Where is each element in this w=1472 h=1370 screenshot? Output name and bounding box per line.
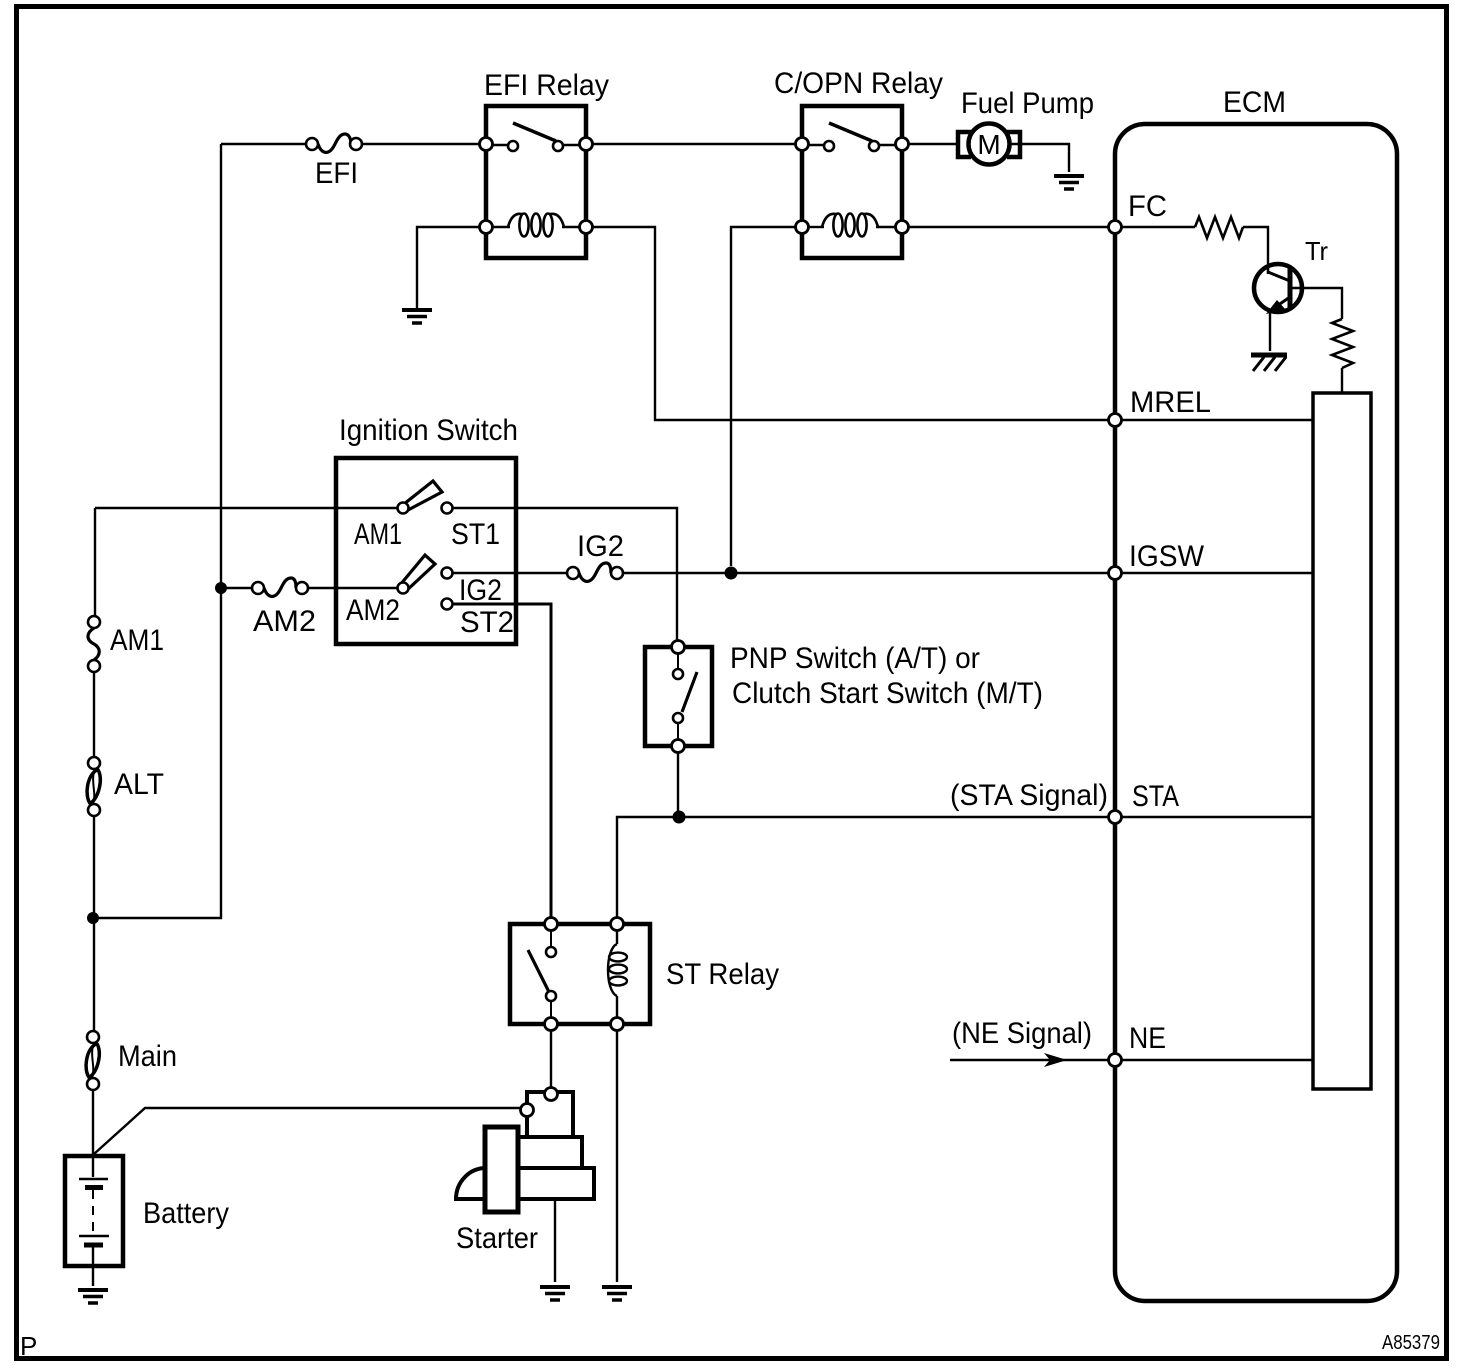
wire STA pin to internal block [1122, 816, 1313, 818]
svg-text:Tr: Tr [1305, 236, 1328, 266]
pin NE [1109, 1054, 1122, 1067]
ignition switch contact ST2 [442, 599, 453, 610]
wire transistor emitter to ground [1269, 312, 1271, 351]
wire battery to ground [92, 1266, 94, 1286]
wire C/OPN coil-left pin to IGSW riser [731, 227, 796, 566]
fuse IG2 [567, 563, 623, 581]
pin IGSW [1109, 567, 1122, 580]
wire transistor collector [1290, 288, 1342, 319]
wire EFI coil-right pin to MREL riser [592, 227, 1110, 420]
starter assembly [456, 1092, 594, 1212]
motor fuel pump [958, 124, 1020, 165]
junction STA/PNP [673, 811, 686, 824]
wire NE signal with arrowhead [950, 1053, 1108, 1067]
wire IG2 fuse to IGSW pin [623, 572, 1110, 574]
EFI relay contact circles [508, 141, 518, 151]
fuse ALT (fusible link) [85, 757, 102, 816]
pin MREL [1109, 414, 1122, 427]
wire ST1 to PNP switch [453, 508, 677, 641]
wire IGSW pin to internal block [1122, 572, 1313, 574]
wire left riser AM2 junction down and left to main fuse column [93, 588, 221, 918]
svg-text:Fuel Pump: Fuel Pump [961, 87, 1094, 120]
EFI relay pin top-left [480, 138, 493, 151]
ST relay pin top-left [545, 918, 558, 931]
ground ST relay [602, 1287, 632, 1300]
PNP switch pin top [672, 641, 685, 654]
wire starter to ground [554, 1199, 556, 1282]
relay ST Relay box [510, 924, 650, 1024]
svg-text:IG2: IG2 [577, 530, 624, 563]
fuse AM1 [88, 616, 100, 672]
ground transistor emitter (hatched) [1251, 355, 1287, 371]
wire left riser from B+ rail down to AM2 junction [220, 144, 222, 588]
junction main column [87, 912, 99, 924]
svg-text:STA: STA [1132, 780, 1179, 813]
ST relay inner contacts [546, 947, 556, 957]
pin FC [1109, 221, 1122, 234]
wire B+ rail top from left riser to EFI fuse [221, 143, 306, 145]
PNP switch internal leads [677, 653, 679, 740]
relay C/OPN Relay box [802, 106, 902, 258]
svg-text:Clutch Start Switch (M/T): Clutch Start Switch (M/T) [732, 677, 1043, 710]
svg-text:IGSW: IGSW [1129, 540, 1205, 573]
ECM box [1115, 124, 1397, 1301]
PNP switch blade [682, 672, 697, 712]
wire ALT fuse to Main fuse [93, 816, 95, 1031]
ST relay coil (vertical) [608, 930, 627, 1018]
fuse EFI [306, 134, 362, 152]
svg-text:AM2: AM2 [346, 594, 400, 627]
svg-text:Ignition Switch: Ignition Switch [339, 414, 518, 447]
svg-text:P: P [20, 1331, 37, 1361]
ignition switch box [336, 458, 516, 644]
wire AM2 junction to AM2 fuse [221, 587, 252, 589]
ST relay pin bottom-left [545, 1018, 558, 1031]
wire STA rail (ST relay coil riser + horizontal to STA pin) [617, 817, 1110, 918]
ST relay pin top-right [611, 918, 624, 931]
wire AM2 fuse to ignition switch [308, 587, 397, 589]
ground starter [540, 1287, 570, 1300]
EFI relay pin top-right [580, 138, 593, 151]
svg-text:AM2: AM2 [253, 605, 316, 638]
C/OPN relay pin top-right [896, 138, 909, 151]
ECM internal block [1313, 393, 1371, 1089]
relay EFI Relay box [486, 106, 586, 258]
pin STA [1109, 811, 1122, 824]
resistor FC (horizontal) [1195, 217, 1243, 238]
EFI relay coil [492, 214, 580, 237]
ST relay contact blade [528, 950, 549, 992]
svg-text:(STA Signal): (STA Signal) [950, 779, 1108, 812]
wire C/OPN top-right pin to fuel pump [908, 143, 957, 145]
wire Main fuse to battery [92, 1090, 94, 1156]
wire AM1 row from column corner to ignition switch [95, 508, 398, 616]
ignition switch contact AM1 [398, 503, 409, 514]
transistor Tr [1254, 264, 1302, 314]
svg-text:FC: FC [1128, 190, 1167, 223]
svg-text:AM1: AM1 [110, 624, 164, 657]
fuse Main (fusible link) [84, 1031, 101, 1090]
starter terminal pin top [545, 1088, 558, 1101]
svg-text:ECM: ECM [1223, 86, 1286, 119]
ground fuel pump [1054, 176, 1084, 189]
svg-text:MREL: MREL [1130, 386, 1211, 419]
wire MREL pin to internal block [1122, 419, 1313, 421]
wire EFI fuse to EFI relay [362, 143, 480, 145]
svg-text:EFI Relay: EFI Relay [484, 69, 609, 102]
svg-text:ST2: ST2 [460, 606, 514, 639]
svg-text:Starter: Starter [456, 1222, 538, 1255]
svg-text:(NE Signal): (NE Signal) [952, 1017, 1092, 1050]
svg-text:ALT: ALT [114, 768, 164, 801]
starter terminal pin battery [521, 1104, 534, 1117]
ignition switch contact ST1 [442, 503, 453, 514]
wire EFI coil left pin to ground riser [417, 227, 480, 308]
junction AM2 feed [215, 582, 227, 594]
ignition switch contact AM2 [398, 583, 409, 594]
ignition switch contact IG2 [442, 568, 453, 579]
wire PNP bottom to STA junction [677, 753, 679, 817]
switch PNP/Clutch Start box [645, 647, 712, 746]
svg-text:ST1: ST1 [451, 518, 500, 551]
wire ST2 to ST relay [453, 604, 551, 918]
svg-text:AM1: AM1 [354, 518, 402, 551]
ignition switch AM2 wedge [400, 555, 435, 591]
EFI relay pin coil-left [480, 221, 493, 234]
svg-text:PNP Switch (A/T) or: PNP Switch (A/T) or [730, 642, 980, 675]
C/OPN relay contact blade [829, 123, 872, 141]
svg-text:M: M [977, 129, 1000, 160]
svg-text:EFI: EFI [315, 157, 358, 190]
svg-text:Main: Main [118, 1040, 177, 1073]
wire battery positive to starter (diagonal + horizontal) [94, 1108, 521, 1154]
svg-text:Battery: Battery [143, 1197, 229, 1230]
wire FC pin to resistor [1122, 226, 1195, 228]
ST relay internal leads [550, 930, 552, 1018]
svg-text:ST Relay: ST Relay [666, 958, 779, 991]
wire IG2 row to IG2 fuse [453, 572, 567, 574]
junction IG2/C-OPN coil [725, 567, 738, 580]
wire AM1 fuse to ALT fuse [93, 672, 95, 757]
wire NE pin to internal block [1122, 1059, 1313, 1061]
PNP switch inner contacts [673, 669, 683, 679]
wire resistor to internal block [1341, 368, 1343, 393]
wire C/OPN coil-right pin to FC pin [908, 226, 1110, 228]
C/OPN relay contact circles [824, 141, 834, 151]
svg-text:IG2: IG2 [459, 574, 502, 607]
ST relay pin bottom-right [611, 1018, 624, 1031]
wire ST relay coil to ground [616, 1031, 618, 1282]
PNP switch pin bottom [672, 740, 685, 753]
wire EFI relay to C/OPN relay top row [592, 143, 796, 145]
EFI relay internal leads [492, 144, 580, 146]
battery [65, 1156, 123, 1266]
svg-text:C/OPN Relay: C/OPN Relay [774, 67, 943, 100]
ground battery [78, 1290, 108, 1303]
C/OPN relay coil [808, 214, 896, 237]
resistor collector (vertical) [1332, 319, 1353, 368]
EFI relay contact blade [513, 123, 556, 141]
ground below EFI relay [402, 310, 432, 323]
fuse AM2 [252, 578, 308, 596]
wire fuel pump to ground [1010, 144, 1069, 172]
svg-text:NE: NE [1129, 1022, 1166, 1055]
wire resistor to transistor base [1243, 227, 1268, 264]
C/OPN relay pin coil-right [896, 221, 909, 234]
C/OPN relay pin top-left [796, 138, 809, 151]
C/OPN relay pin coil-left [796, 221, 809, 234]
ignition switch AM1 wedge [404, 481, 442, 510]
wire ST relay to starter solenoid [550, 1031, 552, 1088]
EFI relay pin coil-right [580, 221, 593, 234]
svg-text:A85379: A85379 [1382, 1332, 1440, 1354]
C/OPN relay internal leads [808, 144, 896, 146]
